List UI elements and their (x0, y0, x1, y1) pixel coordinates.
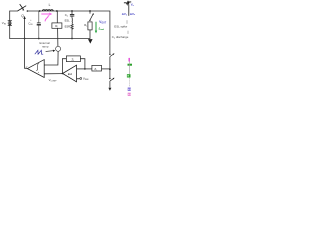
scope marker pink box (128, 93, 131, 96)
wire battery drop (9, 11, 11, 39)
battery V_in (8, 21, 12, 26)
svg-text:L: L (49, 3, 51, 7)
node SW tick (30, 20, 31, 21)
wire to Ri (56, 11, 59, 46)
gain block Ri (52, 23, 62, 28)
scope axis dashed (128, 78, 130, 88)
node EA output (62, 73, 64, 75)
probe switch lower (109, 78, 110, 79)
node Co bottom (71, 38, 73, 40)
svg-text:ramp: ramp (42, 45, 49, 49)
scope axis line (129, 62, 131, 75)
node inductor right (56, 10, 58, 12)
probe switch upper (109, 54, 110, 55)
spike depth line (128, 4, 130, 15)
ground (88, 39, 93, 44)
summing node (56, 46, 61, 51)
arrow i_load (green) (95, 22, 97, 31)
ground rail (10, 38, 90, 40)
capacitor C_IN (37, 11, 41, 39)
impedance Zi (92, 65, 102, 71)
switch Q1 (18, 4, 27, 11)
wire summer to comparator (44, 51, 58, 65)
label i_L (pink) (45, 16, 49, 21)
wire top rail left (10, 10, 18, 12)
wire EA out to comparator (44, 73, 62, 75)
svg-text:ESL: ESL (65, 19, 71, 23)
node sense line (109, 68, 111, 70)
node EA input (84, 68, 86, 70)
svg-text:ESR: ESR (65, 24, 71, 28)
scope marker magenta tick (129, 58, 130, 62)
wire sense line segments (109, 57, 111, 88)
resistor R_L (88, 22, 92, 30)
node input cap top (39, 10, 41, 12)
svg-text:ΔV₂: ΔV₂ (130, 12, 135, 16)
scope marker green box (127, 74, 131, 77)
switch load step (89, 10, 91, 12)
arrowhead drive (23, 16, 25, 19)
scope marker green bar (128, 64, 133, 66)
junction control/ground rail (24, 38, 26, 40)
ground arrow bottom (108, 88, 111, 91)
impedance Zf (66, 56, 80, 62)
arrow ramp to summer (46, 50, 54, 53)
wire Zf loop left (62, 59, 66, 74)
wire EA inverting input (77, 68, 92, 70)
arrow i_L (pink) (41, 13, 49, 15)
svg-text:EA: EA (68, 72, 72, 76)
wire EA ref input (77, 78, 80, 80)
leader ESL spike (126, 20, 128, 24)
wire Zf loop right (80, 59, 85, 69)
capacitor Co branch (71, 10, 73, 12)
external ramp icon (blue sawtooth) (35, 50, 43, 54)
scope marker blue box (128, 88, 131, 91)
op-amp U1 PWM comparator (27, 60, 44, 78)
wire top rail main (28, 11, 110, 54)
terminal V_REF (80, 78, 82, 80)
leader Co discharge (127, 31, 129, 34)
waveform Vout transient (124, 1, 131, 5)
parasitic ESL (71, 16, 73, 24)
wire Zi to Vout sense (102, 68, 110, 70)
parasitic ESR (71, 24, 73, 39)
inductor L (42, 10, 53, 11)
node input cap bottom (38, 38, 40, 40)
svg-text:Co discharge: Co discharge (112, 35, 129, 40)
svg-text:ESL spike: ESL spike (114, 24, 127, 28)
wire comparator output to switch (control line) (25, 19, 28, 69)
op-amp U2 error amplifier EA (63, 65, 77, 82)
